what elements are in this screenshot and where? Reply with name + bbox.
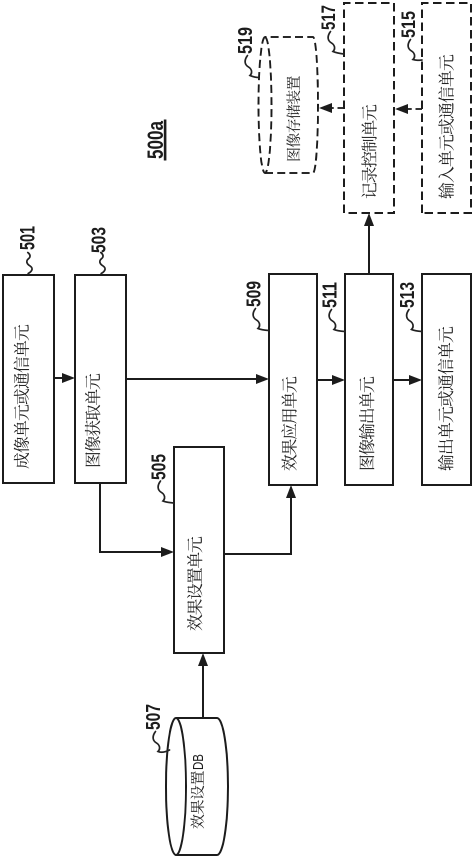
- cylinder 507 效果设置DB: [176, 718, 228, 855]
- svg-text:507: 507: [143, 704, 165, 730]
- svg-text:505: 505: [149, 454, 171, 480]
- box 513 输出单元或通信单元: [422, 274, 471, 485]
- arrow 505 to 509 (elbow): [224, 498, 291, 554]
- arrow 511 to 513: [393, 379, 409, 381]
- arrow 507 to 505: [202, 666, 204, 718]
- underline of 500a: [164, 120, 167, 161]
- leader squiggle 511: [329, 310, 345, 332]
- svg-text:513: 513: [397, 282, 419, 308]
- leader squiggle 507: [153, 732, 169, 753]
- text 513 输出单元或通信单元: [438, 327, 454, 471]
- leader squiggle 505: [158, 481, 173, 503]
- svg-text:515: 515: [399, 11, 420, 38]
- arrow 501 to 503: [54, 377, 62, 379]
- text 509 效果应用单元: [281, 377, 297, 471]
- text 511 图像输出单元: [359, 377, 375, 469]
- dashed arrow 517 to 519: [332, 107, 344, 109]
- text 501 成像单元或通信单元: [14, 325, 30, 469]
- cylinder 519 图像存储装置 (dashed): [265, 37, 318, 173]
- svg-text:519: 519: [235, 27, 257, 54]
- leader squiggle 517: [328, 32, 344, 55]
- box 501 成像单元或通信单元: [3, 275, 54, 483]
- text 517 记录控制单元: [361, 105, 376, 199]
- box 509 效果应用单元: [269, 274, 317, 485]
- leader squiggle 509: [253, 309, 269, 331]
- box 517 记录控制单元 (dashed): [344, 3, 394, 213]
- svg-text:501: 501: [17, 226, 40, 250]
- arrow 509 to 511: [317, 379, 332, 381]
- dashed arrow 515 to 517: [408, 108, 422, 110]
- text 505 效果设置单元: [187, 537, 202, 631]
- arrow 503 to 509: [126, 378, 256, 380]
- leader squiggle 513: [407, 310, 422, 332]
- leader squiggle 503: [100, 253, 105, 274]
- arrow 503 to 505 (elbow): [100, 483, 161, 552]
- text 515 输入单元或通信单元: [438, 55, 454, 199]
- arrow 511 to 517: [368, 226, 370, 274]
- svg-text:511: 511: [320, 282, 342, 308]
- box 505 效果设置单元: [174, 447, 224, 653]
- box 503 图像获取单元: [75, 275, 126, 483]
- svg-text:503: 503: [88, 227, 110, 253]
- text 503 图像获取单元: [85, 374, 101, 466]
- text 507 效果设置: [190, 771, 204, 828]
- leader squiggle 515: [408, 40, 422, 61]
- text 519 图像存储装置: [286, 76, 300, 160]
- svg-text:509: 509: [243, 281, 265, 307]
- leader squiggle 501: [27, 253, 32, 274]
- leader squiggle 519: [245, 56, 259, 78]
- svg-text:517: 517: [319, 5, 340, 30]
- svg-text:DB: DB: [191, 754, 207, 770]
- box 515 输入单元或通信单元 (dashed): [422, 3, 471, 213]
- box 511 图像输出单元: [345, 274, 393, 485]
